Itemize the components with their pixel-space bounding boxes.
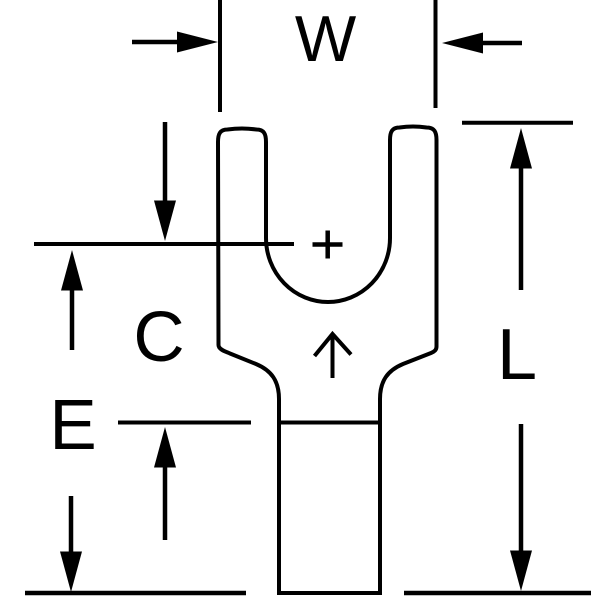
bottom datum line left [25, 591, 246, 596]
E lower arrow (down) [69, 496, 74, 553]
svg-text:E: E [49, 386, 96, 465]
fork terminal outline [218, 127, 437, 593]
L top datum line [462, 121, 573, 125]
bottom datum line right [404, 591, 591, 596]
svg-text:C: C [133, 298, 184, 377]
C upper arrow (down) [163, 122, 168, 202]
barrel top line [279, 421, 380, 425]
E upper arrow (up) [61, 250, 83, 291]
W left arrow [132, 40, 181, 45]
W right arrow [482, 41, 522, 46]
E datum line (barrel top extension) [118, 421, 251, 425]
svg-text:W: W [295, 2, 357, 75]
C datum line (slot centerline) [34, 242, 294, 246]
plus mark (slot center) [313, 231, 343, 259]
C lower arrow (up) [154, 427, 176, 468]
L upper arrow (up) [510, 128, 532, 169]
W right extension line [434, 0, 438, 108]
W left extension line [218, 0, 222, 112]
open up arrow (wire insert direction) [315, 334, 352, 378]
L lower arrow (down) [519, 424, 524, 552]
svg-text:L: L [497, 315, 537, 395]
